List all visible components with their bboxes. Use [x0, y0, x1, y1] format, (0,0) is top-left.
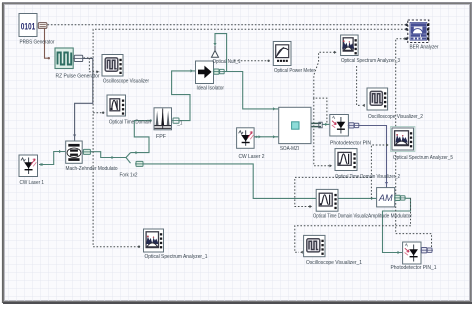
Photodetector PIN — [330, 115, 371, 147]
BER Analyzer — [405, 20, 438, 51]
wire dashed SOA-MZI output to Optical Time Domain Visualizer_2 — [314, 98, 332, 167]
svg-text:Mach-Zehnder Modulato: Mach-Zehnder Modulato — [66, 166, 118, 172]
wire dashed PRBS Generator to BER Analyzer input 1 — [48, 24, 407, 26]
svg-text:Oscilloscope Visualizer_2: Oscilloscope Visualizer_2 — [368, 114, 423, 120]
wire dashed Amplitude Modulator output to Oscilloscope Visualizer_1 — [295, 198, 411, 254]
Oscilloscope Visualizer_2 — [367, 88, 423, 120]
Optical Time Domain Visualizer — [107, 95, 182, 127]
wire dashed Photodetector PIN_1 output to BER Analyzer input 3 — [396, 37, 432, 247]
wire SOA-MZI output to Photodetector PIN — [322, 123, 329, 126]
Amplitude Modulator — [368, 188, 412, 220]
svg-text:Ideal Isolator: Ideal Isolator — [197, 85, 225, 91]
wire dashed to Oscilloscope Visualizer_2 — [357, 66, 365, 107]
FPF filter — [154, 108, 180, 140]
svg-text:Optical Power Meter: Optical Power Meter — [274, 68, 315, 74]
Photodetector PIN_1 — [391, 242, 437, 271]
svg-text:BER Analyzer: BER Analyzer — [410, 45, 439, 51]
svg-text:Optical Time Domain Visualizer: Optical Time Domain Visualizer_2 — [335, 174, 400, 180]
wire Fork 1x2 lower branch to Amplitude Modulator input 1 — [143, 164, 376, 200]
wire dashed trunk to BER Analyzer input 2 — [93, 29, 406, 247]
Optical Power Meter — [273, 42, 315, 74]
Optical Null_1 — [212, 46, 241, 65]
wire Fork 1x2 upper branch to FPF input — [131, 119, 152, 154]
wire FPF output to Ideal Isolator input — [172, 69, 195, 120]
PRBS Generator — [19, 14, 55, 46]
Oscilloscope Visualizer — [102, 55, 149, 85]
wire dashed RZ output to Oscilloscope Visualizer — [84, 58, 100, 74]
Oscilloscope Visualizer_1 — [304, 235, 363, 265]
Optical Spectrum Analyzer_3 — [341, 35, 400, 64]
svg-text:PRBS Generator: PRBS Generator — [20, 40, 55, 46]
wire dashed branch to Optical Spectrum Analyzer_1 — [93, 246, 140, 248]
svg-text:Optical Time Domain: Optical Time Domain — [109, 119, 151, 125]
svg-text:Fork 1x2: Fork 1x2 — [120, 173, 138, 179]
svg-text:Oscilloscope Visualizer_1: Oscilloscope Visualizer_1 — [306, 260, 362, 266]
RZ Pulse Generator — [55, 48, 100, 80]
svg-text:FPF: FPF — [156, 134, 166, 140]
wire Ideal Isolator output to SOA-MZI input 1 — [223, 72, 279, 111]
svg-text:Oscilloscope Visualizer: Oscilloscope Visualizer — [103, 79, 149, 85]
wire dashed Ideal Isolator to Optical Power Meter — [234, 60, 270, 62]
wire dashed SOA-MZI output to Optical Spectrum Analyzer_3 — [314, 51, 337, 123]
wire Amplitude Modulator output to Photodetector PIN_1 — [383, 198, 411, 254]
SOA-MZI — [279, 107, 322, 152]
svg-text:0101: 0101 — [21, 20, 36, 31]
CW Laser 2 — [237, 128, 265, 160]
svg-text:CW Laser 1: CW Laser 1 — [20, 180, 45, 186]
wire dashed fork signal to Optical Time Domain Visualizer lower — [295, 177, 372, 208]
node fork junction — [126, 153, 131, 164]
Optical Time Domain Visualizer lower — [313, 189, 368, 219]
svg-text:Optical Spectrum Analyzer_5: Optical Spectrum Analyzer_5 — [393, 155, 453, 161]
wire PRBS Generator to RZ Pulse Generator — [45, 28, 51, 59]
svg-text:Optical Spectrum Analyzer_3: Optical Spectrum Analyzer_3 — [341, 58, 400, 64]
wire Photodetector PIN output to Amplitude Modulator top input — [358, 126, 388, 188]
Fork 1x2 — [120, 161, 145, 178]
CW Laser 1 — [19, 155, 44, 186]
svg-text:Photodetector PIN: Photodetector PIN — [330, 140, 371, 146]
svg-text:Optical Null_1: Optical Null_1 — [213, 59, 241, 65]
wire dashed branch to Optical Time Domain Visualizer — [93, 112, 104, 114]
svg-text:RZ Pulse Generator: RZ Pulse Generator — [56, 74, 100, 80]
wire RZ Pulse Generator to Mach-Zehnder Modulator electrical input — [73, 59, 93, 141]
wire branch to Optical Null_1 — [213, 34, 226, 72]
Mach-Zehnder Modulator — [66, 141, 118, 172]
svg-text:Optical Spectrum Analyzer_1: Optical Spectrum Analyzer_1 — [145, 254, 208, 260]
Ideal Isolator — [196, 61, 226, 91]
wire CW Laser 2 to SOA-MZI input 2 — [255, 135, 279, 138]
svg-text:SOA-MZI: SOA-MZI — [280, 146, 299, 152]
svg-text:CW Laser 2: CW Laser 2 — [239, 154, 265, 160]
svg-text:Optical Time Domain Visualiz: Optical Time Domain Visualiz — [313, 214, 368, 220]
wire CW Laser 1 to Mach-Zehnder Modulator — [39, 150, 65, 166]
wire dashed fork signal to Optical Spectrum Analyzer_5 — [371, 143, 388, 198]
Optical Spectrum Analyzer_1 — [144, 229, 208, 260]
Optical Spectrum Analyzer_5 — [391, 127, 453, 161]
wire Mach-Zehnder Modulator to Fork 1x2 — [91, 152, 127, 159]
svg-text:Photodetector PIN_1: Photodetector PIN_1 — [391, 265, 437, 271]
svg-text:AM: AM — [378, 193, 393, 203]
svg-text:Amplitude Modulator: Amplitude Modulator — [368, 214, 412, 220]
Optical Time Domain Visualizer_2 — [335, 149, 400, 180]
